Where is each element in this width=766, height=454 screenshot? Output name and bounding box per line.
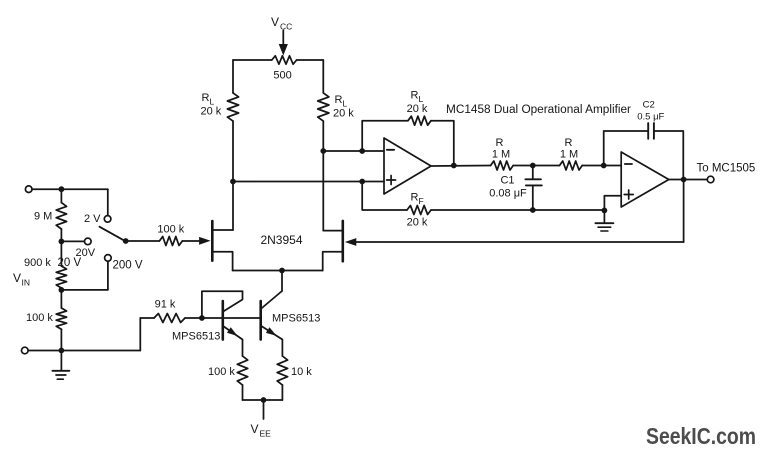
wire — [654, 131, 683, 180]
node C1 bottom — [530, 207, 536, 213]
JFET Q1a drain — [212, 229, 233, 231]
label 9M — [34, 211, 52, 223]
node source rail — [279, 268, 285, 274]
ground U2 — [595, 210, 613, 231]
Vcc arrow — [279, 31, 288, 56]
svg-text:100 k: 100 k — [26, 312, 53, 324]
label 100k emitter — [208, 366, 235, 378]
U2 minus sign — [625, 163, 632, 165]
svg-text:SeekIC.com: SeekIC.com — [646, 423, 756, 449]
wire pot left — [233, 59, 272, 61]
label 2V — [84, 213, 101, 225]
wire emitter rail — [243, 399, 283, 401]
gate arrow left JFET — [199, 237, 211, 245]
Q3 emitter — [261, 326, 282, 356]
node C1 top — [530, 163, 536, 169]
potentiometer 500 — [272, 56, 297, 64]
wire 200V — [61, 261, 108, 290]
resistor 9M — [56, 189, 66, 241]
switch blade — [99, 227, 124, 241]
label MPS6513 right — [272, 313, 320, 325]
label To MC1505 — [697, 163, 756, 175]
resistor RF 20k — [407, 206, 431, 215]
resistor 10k emitter — [277, 356, 287, 400]
svg-text:2 V: 2 V — [84, 213, 101, 225]
svg-text:500: 500 — [273, 70, 291, 82]
wire — [322, 121, 324, 231]
svg-text:2N3954: 2N3954 — [260, 233, 302, 247]
wire — [232, 121, 234, 230]
wire — [281, 271, 283, 292]
Q2 emitter arrow — [227, 327, 238, 336]
svg-text:9 M: 9 M — [34, 211, 52, 223]
op-amp U2 — [621, 152, 669, 207]
resistor 91k — [154, 314, 185, 323]
resistor 900k — [56, 241, 66, 290]
svg-text:V: V — [13, 271, 21, 285]
label MC1458 — [446, 104, 631, 116]
SeekIC.com logo — [646, 423, 756, 449]
node minus-line junction — [320, 148, 326, 154]
U1 minus sign — [387, 149, 394, 151]
svg-text:R: R — [335, 94, 343, 106]
capacitor C1 — [525, 166, 541, 211]
switch pivot — [123, 238, 129, 244]
JFET Q1a source — [212, 252, 232, 271]
JFET Q1b source — [323, 252, 343, 271]
node drain-left junction — [230, 179, 236, 185]
wire 2V drop — [107, 189, 109, 215]
svg-text:R: R — [496, 137, 504, 149]
resistor RL right 20k — [318, 93, 329, 121]
wire plus line — [233, 181, 384, 183]
svg-text:R: R — [411, 90, 419, 102]
svg-text:20 k: 20 k — [407, 217, 428, 229]
label C1 — [500, 175, 514, 187]
label 2N3954 — [260, 233, 302, 247]
capacitor C2 — [648, 123, 654, 139]
terminal 2V — [104, 216, 111, 223]
wire source rail — [233, 270, 323, 272]
node ground junction — [602, 208, 608, 214]
terminal input top — [25, 186, 32, 193]
label 20V — [76, 247, 96, 259]
wire base rail — [202, 317, 261, 319]
svg-text:20 k: 20 k — [333, 108, 354, 120]
label C2 value — [637, 112, 664, 123]
label 20k feedback — [407, 103, 428, 115]
terminal 200V — [105, 255, 112, 262]
svg-text:91 k: 91 k — [155, 299, 176, 311]
wire — [362, 182, 407, 211]
svg-text:20 V: 20 V — [58, 257, 82, 269]
label R1 1M — [492, 149, 510, 161]
label Vee — [251, 422, 272, 439]
wire Vee — [263, 400, 265, 419]
label 100k divider — [26, 312, 53, 324]
svg-text:To MC1505: To MC1505 — [697, 163, 756, 175]
wire — [582, 165, 621, 167]
resistor R1 1M — [491, 161, 514, 170]
wire — [431, 165, 491, 168]
wire bottom rail — [28, 350, 140, 352]
wire — [604, 131, 649, 166]
node 200V tap — [59, 287, 65, 293]
transistor Q3 bar — [259, 301, 262, 340]
label 10k — [291, 366, 312, 378]
svg-text:10 k: 10 k — [291, 366, 312, 378]
wire — [669, 179, 708, 181]
svg-text:1 M: 1 M — [492, 149, 510, 161]
Q2 collector loop — [202, 291, 243, 318]
Q2 collector — [223, 291, 242, 311]
resistor 100k divider — [56, 290, 66, 351]
node — [359, 148, 365, 154]
svg-text:1 M: 1 M — [560, 149, 578, 161]
label 200V — [113, 260, 143, 272]
wire 20V — [61, 240, 84, 242]
svg-text:EE: EE — [260, 429, 272, 439]
svg-text:C1: C1 — [500, 175, 514, 187]
svg-text:0.5 μF: 0.5 μF — [637, 112, 664, 123]
resistor 100k emitter — [237, 356, 247, 400]
resistor 100k gate — [159, 237, 182, 246]
svg-text:CC: CC — [280, 22, 292, 32]
wire pot right — [297, 59, 324, 61]
wire — [32, 188, 108, 190]
svg-text:0.08 μF: 0.08 μF — [489, 188, 527, 200]
svg-text:C2: C2 — [643, 100, 655, 111]
terminal To MC1505 — [707, 176, 714, 183]
wire — [322, 60, 324, 93]
svg-text:900 k: 900 k — [24, 257, 51, 269]
node — [359, 179, 365, 185]
node 20V tap — [59, 239, 65, 245]
node — [59, 348, 65, 354]
label 500 — [273, 70, 291, 82]
label C2 — [643, 100, 655, 111]
wire — [185, 317, 202, 319]
U1 plus sign — [387, 176, 396, 185]
label RF 20k — [407, 217, 428, 229]
label 20k left — [201, 106, 222, 118]
svg-text:F: F — [419, 196, 424, 206]
JFET Q1b bar — [341, 221, 344, 261]
terminal 20V — [85, 238, 92, 245]
wire — [139, 318, 141, 351]
Q2 emitter — [223, 326, 243, 356]
label 20 V — [58, 257, 82, 269]
node U1 output — [451, 163, 457, 169]
svg-text:MPS6513: MPS6513 — [172, 331, 220, 343]
Vcc label — [271, 15, 292, 32]
wire — [182, 240, 199, 242]
node U2 minus — [601, 163, 607, 169]
resistor RL left 20k — [227, 93, 238, 121]
wire U2 plus — [604, 196, 621, 211]
gate arrow right JFET — [345, 238, 357, 246]
svg-text:R: R — [565, 137, 573, 149]
wire — [140, 317, 154, 319]
wire — [362, 121, 408, 151]
svg-text:MPS6513: MPS6513 — [272, 313, 320, 325]
wire — [431, 121, 454, 166]
resistor RL feedback 20k — [408, 116, 431, 125]
svg-text:20 k: 20 k — [407, 103, 428, 115]
label RL right — [335, 94, 348, 109]
svg-text:100 k: 100 k — [208, 366, 235, 378]
resistor R2 1M — [560, 161, 583, 170]
op-amp U1 — [384, 138, 431, 194]
label 20k right — [333, 108, 354, 120]
svg-text:R: R — [202, 92, 210, 104]
label R2 1M — [560, 149, 578, 161]
JFET Q1a bar — [211, 221, 214, 261]
node Vee — [261, 397, 267, 403]
label RL left — [202, 92, 215, 107]
label R2 — [565, 137, 573, 149]
label 91k — [155, 299, 176, 311]
terminal input bottom — [22, 347, 29, 354]
label RL feedback — [411, 90, 424, 105]
wire feedback — [356, 241, 684, 243]
svg-text:200 V: 200 V — [113, 260, 143, 272]
Q3 emitter arrow — [266, 327, 277, 336]
transistor Q2 bar — [222, 301, 225, 340]
label RF — [411, 192, 424, 207]
wire — [431, 209, 604, 211]
ground input — [52, 351, 69, 380]
wire minus line — [323, 150, 384, 152]
node — [59, 186, 65, 192]
svg-text:V: V — [251, 422, 259, 436]
svg-text:IN: IN — [22, 278, 31, 288]
Q3 collector — [261, 291, 282, 309]
label MPS6513 left — [172, 331, 220, 343]
svg-text:MC1458 Dual Operational Amplif: MC1458 Dual Operational Amplifier — [446, 104, 631, 116]
wire feedback down — [683, 180, 685, 243]
label R1 — [496, 137, 504, 149]
svg-text:100 k: 100 k — [157, 223, 184, 235]
wire — [513, 165, 559, 167]
svg-text:20 k: 20 k — [201, 106, 222, 118]
svg-text:V: V — [271, 15, 279, 29]
wire — [232, 60, 234, 93]
svg-text:R: R — [411, 192, 419, 204]
label Vin — [13, 271, 30, 288]
wire — [126, 240, 160, 242]
node U2 output — [681, 177, 687, 183]
label 100k gate — [157, 223, 184, 235]
U2 plus sign — [624, 190, 633, 199]
JFET Q1b drain — [323, 230, 343, 232]
label 900k — [24, 257, 51, 269]
label C1 value — [489, 188, 527, 200]
node base junction — [199, 315, 205, 321]
